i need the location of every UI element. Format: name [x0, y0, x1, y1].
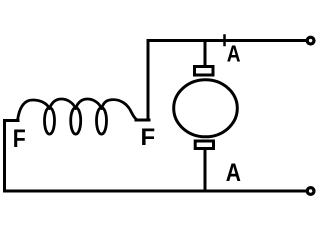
- svg-text:A: A: [227, 41, 241, 67]
- svg-text:A: A: [226, 159, 241, 187]
- svg-text:F: F: [13, 125, 26, 153]
- svg-text:F: F: [141, 124, 156, 151]
